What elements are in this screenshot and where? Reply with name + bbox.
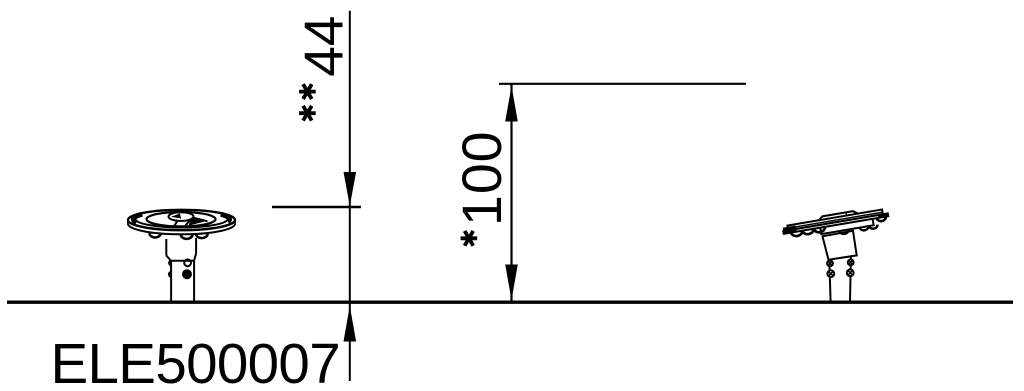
svg-text:ELE500007: ELE500007 xyxy=(51,332,340,391)
svg-text:44: 44 xyxy=(293,16,355,77)
svg-text:100: 100 xyxy=(451,131,513,226)
